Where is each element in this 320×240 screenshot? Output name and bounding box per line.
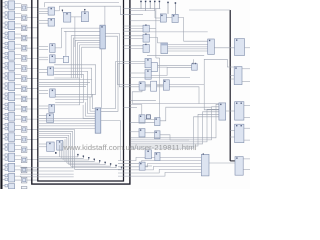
driver U36 [219, 103, 226, 120]
wire U42 out1 [244, 105, 250, 107]
ic U40 [235, 39, 245, 56]
wire RN1 top feed [104, 6, 106, 25]
wire riser bundle to U36 [131, 104, 219, 138]
gate U4 [50, 44, 56, 53]
connector J2 [95, 108, 101, 133]
wire J2 riser 1 [101, 62, 145, 109]
logic U22 [143, 25, 149, 32]
wire U2 out [55, 10, 60, 12]
wire U23 out [149, 38, 161, 43]
wires crossing mid [38, 79, 92, 81]
wire U30 to U40 [214, 47, 234, 49]
connector X3 with RC network [3, 21, 38, 31]
gate U31 [139, 115, 145, 123]
gate U6 [63, 56, 68, 62]
gate U10 [47, 114, 54, 123]
vertical net x156 [155, 9, 157, 58]
flip-flop U26b [145, 70, 151, 80]
connector X15 with RC network [3, 143, 38, 153]
connector X6 with RC network [3, 52, 38, 61]
wire bus U33 [130, 121, 155, 123]
wire U44 out2 [243, 168, 250, 170]
wire to U31 [130, 105, 142, 115]
connector X12 with RC network [3, 113, 38, 122]
wire bus to U20 low [130, 20, 160, 22]
wire U4 to RN1 [55, 28, 100, 48]
wire nested bundle to connector J2 [54, 65, 95, 95]
buffer U29 [151, 81, 157, 91]
connector X10 with RC network [3, 92, 38, 102]
wire y107 [124, 106, 138, 108]
flip-flop U26a [145, 58, 151, 67]
connector X2 with RC network [3, 11, 38, 20]
wire U31-U33 [145, 119, 155, 121]
wire U42 out2 [244, 117, 250, 119]
wires bottom crossing [20, 167, 74, 169]
wire U22 out [149, 28, 156, 30]
gate U33 [155, 118, 160, 126]
connector X1 with RC network [3, 1, 38, 11]
gate U3 [48, 18, 54, 26]
wire U41 out2 [242, 81, 250, 83]
logic U23 [143, 34, 149, 42]
dark vertical net [229, 10, 231, 161]
logic U16 [81, 12, 88, 22]
flip-flop U21 [172, 14, 178, 22]
wires straight feeds J2 lower [38, 117, 95, 119]
wires bus to middle components [38, 8, 48, 10]
gate U9 [49, 104, 55, 112]
connector X14 with RC network [3, 133, 38, 143]
wire J2 riser 2 [101, 63, 145, 111]
wire U41 out1 [242, 68, 250, 70]
outer board outline [32, 0, 130, 184]
wire E3 out [145, 165, 152, 167]
gate U5 [50, 55, 56, 63]
wires U24 to U30 [168, 43, 208, 45]
wire corner net [204, 59, 234, 84]
ic U43 [235, 124, 244, 142]
connector X18 with RC network [3, 173, 38, 183]
wire top right faint [189, 9, 230, 11]
wire staircase to resistor array RN1 [71, 36, 100, 78]
wire U20-U21 [166, 17, 172, 19]
wire U34 out [160, 135, 189, 140]
wire into U20 [154, 11, 156, 18]
inner IC U1 outline [38, 0, 124, 181]
gate U12b [57, 140, 63, 150]
wire U43 out2 [244, 139, 250, 141]
gate U28 [139, 82, 145, 90]
wire staircase bundle to U37 [118, 157, 201, 160]
wire corner to U36 [204, 85, 219, 110]
dark link to U44 [230, 160, 235, 162]
wire J2 down [101, 121, 120, 162]
wire fan bundle with net stubs [38, 130, 75, 170]
wire U40 out [245, 47, 251, 49]
wire U36-U42 [226, 110, 235, 112]
wire U43 in [230, 130, 234, 132]
net stub arrows top row [140, 1, 142, 8]
gate U32 [139, 129, 145, 137]
wire U16 down [74, 17, 76, 47]
gate U34 [155, 131, 160, 139]
connector X7 with RC network [3, 62, 38, 71]
connector X19 partial [3, 184, 27, 189]
wire U27 loop [151, 67, 167, 75]
scan edge bar [0, 0, 2, 189]
wire U6 to RN1 [64, 31, 66, 56]
wire U29 out [157, 85, 164, 87]
junction dot [55, 152, 57, 154]
wire bus U26b [130, 72, 145, 74]
ic U44 [235, 157, 243, 176]
ic U41 [234, 67, 242, 85]
wire top long [45, 3, 120, 8]
vertical net x159 [159, 58, 161, 122]
driver U30 [208, 39, 215, 54]
wire frame top [59, 6, 143, 15]
wire U41 in [230, 75, 234, 77]
gate U28b [163, 80, 169, 90]
connector X4 with RC network [3, 31, 38, 40]
connector X9 with RC network [3, 82, 38, 92]
wire U35 up [192, 59, 194, 63]
wire U15-U16 [71, 16, 82, 18]
driver U37 [201, 154, 209, 176]
gate U35 [192, 64, 198, 70]
connector X8 with RC network [3, 72, 38, 82]
flip-flop U20 [160, 14, 166, 22]
gate U8 [50, 89, 56, 97]
wire U15 stub [61, 11, 63, 13]
connector X17 with RC network [3, 163, 38, 173]
wire row y55 [147, 55, 204, 57]
gate U2 [48, 7, 54, 15]
wire RN1 out right [105, 36, 204, 84]
logic U25 [161, 43, 168, 54]
logic U15 [64, 12, 71, 22]
wire U28 link [145, 85, 151, 87]
wire RN1 out right 2 [105, 33, 219, 103]
buffer U27 [151, 63, 157, 72]
wire U22 out long [149, 31, 207, 33]
wire U37-U44 [209, 162, 235, 164]
wire hooks into J2 [92, 94, 95, 108]
gate U12 [47, 142, 55, 151]
wire RN1 bottom down [101, 49, 103, 108]
gate E2 [155, 152, 160, 160]
connector X16 with RC network [3, 153, 38, 163]
wire y100 [130, 99, 156, 101]
connector X5 with RC network [3, 42, 38, 52]
vertical jog [156, 57, 160, 59]
wire row y77 [130, 77, 190, 79]
wire U44 out1 [243, 158, 250, 160]
wires bus to U22-U24 [124, 25, 144, 27]
gate E3 [139, 162, 145, 170]
gate U7 [48, 67, 54, 75]
ic U42 [235, 102, 244, 120]
gate E1 [145, 150, 151, 159]
connector X13 with RC network [3, 123, 38, 133]
wires U27 out [158, 65, 192, 67]
resistor array RN1 [100, 25, 105, 49]
wire U32-U34 [145, 132, 155, 134]
connector X11 with RC network [3, 102, 38, 112]
net stub U16 [84, 10, 86, 12]
wire U5-U6 [55, 58, 63, 60]
cap C1 [146, 115, 150, 119]
wire bus right top 2 [130, 10, 155, 12]
wire U43 out1 [244, 127, 250, 129]
wire U28 down corner [132, 90, 199, 103]
wire bus U32 [130, 131, 139, 133]
logic U24 [143, 45, 149, 53]
wire U21 out corner [178, 18, 208, 42]
wire U33 out [160, 107, 212, 121]
wire bus right top 1 [124, 8, 161, 10]
